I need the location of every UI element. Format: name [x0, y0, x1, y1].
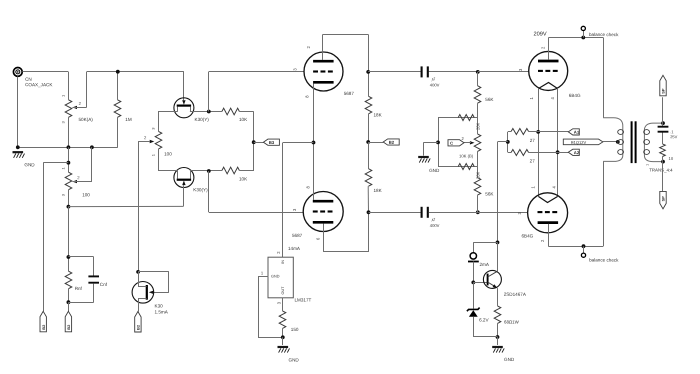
svg-text:6B4G: 6B4G [521, 234, 533, 239]
svg-text:5687: 5687 [292, 233, 303, 238]
svg-text:CN: CN [25, 77, 32, 82]
svg-text:27: 27 [530, 138, 536, 143]
svg-text:SP: SP [661, 88, 666, 94]
svg-text:B1Q12V: B1Q12V [571, 140, 586, 145]
svg-text:C: C [450, 141, 453, 146]
svg-text:18K: 18K [373, 113, 382, 118]
svg-text:balance check: balance check [589, 32, 619, 37]
svg-text:TRANS_4:4: TRANS_4:4 [649, 168, 673, 173]
svg-text:400V: 400V [430, 223, 440, 228]
svg-text:10K: 10K [239, 177, 248, 182]
svg-text:IN: IN [281, 260, 285, 264]
svg-text:50K(A): 50K(A) [78, 117, 93, 122]
svg-text:GND: GND [429, 168, 440, 173]
svg-text:56K: 56K [485, 97, 494, 102]
svg-text:balance check: balance check [589, 258, 619, 263]
svg-text:GND: GND [288, 358, 299, 363]
svg-text:5687: 5687 [344, 91, 355, 96]
svg-text:6.2V: 6.2V [479, 318, 489, 323]
svg-text:K30(Y): K30(Y) [193, 187, 208, 192]
svg-text:GND: GND [271, 275, 280, 279]
svg-text:25V: 25V [670, 134, 677, 139]
svg-text:20K: 20K [476, 122, 481, 130]
svg-text:B2: B2 [41, 324, 46, 330]
svg-text:18K: 18K [373, 188, 382, 193]
svg-text:K30(Y): K30(Y) [194, 117, 209, 122]
svg-text:10: 10 [668, 156, 673, 161]
svg-text:LM317T: LM317T [294, 298, 311, 303]
svg-text:COAX_JACK: COAX_JACK [25, 82, 53, 87]
svg-text:GND: GND [504, 357, 515, 362]
svg-text:A1: A1 [574, 130, 580, 135]
svg-text:209V: 209V [533, 32, 546, 38]
svg-text:1M: 1M [125, 117, 132, 122]
svg-text:27: 27 [530, 159, 536, 164]
svg-text:SP: SP [661, 196, 666, 202]
svg-text:A2: A2 [574, 150, 580, 155]
svg-text:B3: B3 [269, 140, 275, 145]
svg-text:OUT: OUT [281, 286, 285, 295]
svg-text:B2: B2 [389, 140, 395, 145]
svg-text:6B4G: 6B4G [569, 93, 581, 98]
svg-text:100: 100 [164, 152, 172, 157]
svg-text:150: 150 [291, 327, 299, 332]
svg-text:14mA: 14mA [288, 246, 301, 251]
svg-text:K30: K30 [154, 304, 163, 309]
svg-text:400V: 400V [430, 83, 440, 88]
svg-text:B2: B2 [136, 324, 141, 330]
svg-text:10K: 10K [239, 117, 248, 122]
svg-text:2mA: 2mA [479, 262, 489, 267]
svg-text:Rnf: Rnf [75, 286, 83, 291]
svg-text:2SD1467A: 2SD1467A [504, 292, 527, 297]
svg-text:GND: GND [24, 162, 35, 167]
svg-text:B2: B2 [66, 324, 71, 330]
svg-text:Cnf: Cnf [100, 282, 108, 287]
svg-text:68Ω1W: 68Ω1W [504, 320, 520, 325]
svg-text:56K: 56K [485, 192, 494, 197]
svg-text:10K (B): 10K (B) [459, 154, 474, 159]
svg-text:1.5mA: 1.5mA [154, 310, 168, 315]
svg-text:100: 100 [82, 192, 90, 197]
